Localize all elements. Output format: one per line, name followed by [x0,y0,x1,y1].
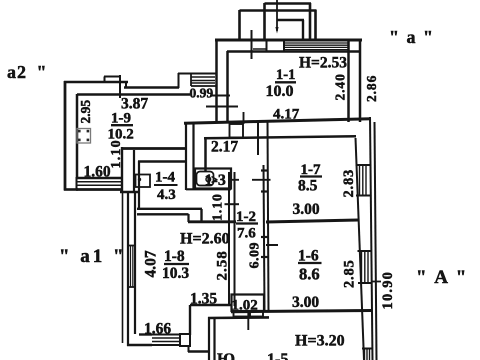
window jamb [283,40,285,52]
room 1-4 bottom wall upper line [137,208,202,210]
wall between 1-9 and porch a1 top [120,191,140,194]
kitchen west wall inner line [213,318,215,360]
porch a1 wall outer thin [122,192,124,343]
wall to kitchen [188,350,210,352]
leader line with arrow [275,0,278,34]
door dot [138,178,141,181]
window jamb [266,40,268,52]
svg-text:4.17: 4.17 [273,107,300,123]
corridor west wall outer [228,172,230,306]
top inner wall [227,50,361,53]
svg-text:1-5: 1-5 [267,351,288,360]
bath tub [195,169,231,189]
svg-text:2.86: 2.86 [364,75,379,102]
tick 3.87 [119,75,121,98]
svg-text:" a1 ": " a1 " [59,246,127,267]
glazing division top [127,245,136,247]
hall 1-8 east lower wall [190,304,231,307]
window 1.66 right block [180,334,190,346]
window 1.60 left jamb [76,177,78,191]
jamb mark [261,169,268,171]
porch a1 glazing [131,245,133,287]
top outer wall [215,39,362,42]
vent shaft edge extension [243,112,245,124]
room 1-4 east wall inner [192,122,194,190]
svg-text:2.85: 2.85 [342,259,358,288]
wall between 1-6 and kitchen [231,311,371,312]
window 1.60 bottom [76,188,122,191]
svg-text:Н=2.60: Н=2.60 [180,231,230,248]
svg-text:Н=2.53: Н=2.53 [299,55,347,72]
hall se corner vertical [189,305,191,335]
svg-text:3.00: 3.00 [293,201,320,218]
svg-text:2.17: 2.17 [211,139,238,156]
step connector right [178,73,180,88]
room 1-4 top wall inner [138,160,186,163]
svg-text:1.10: 1.10 [211,193,226,221]
svg-text:1-1: 1-1 [276,67,295,83]
window 0.99 glazing [191,77,215,83]
tick 10.90 [372,281,381,283]
svg-text:2.95: 2.95 [78,100,93,124]
tick corridor door [225,203,240,205]
right outer wall line 1 [370,117,373,360]
tick on west wall [210,95,230,97]
porch a1 wall line 2 [134,192,136,334]
svg-text:Н=3.20: Н=3.20 [295,333,345,350]
pilaster top line [104,76,121,78]
underline 1-6 [298,262,322,264]
svg-text:" А ": " А " [416,267,468,288]
svg-text:Ю: Ю [217,351,235,360]
pilaster connector [104,77,106,83]
underline 1-7 [300,175,322,177]
sill line [253,48,266,50]
svg-text:1.02: 1.02 [232,298,258,314]
room 1-1 east wall outer [347,39,350,122]
underline 1-4 [154,184,178,186]
room 1-9 top inner wall [77,93,190,96]
svg-text:8.6: 8.6 [299,265,320,284]
room 1-4 bottom wall lower line [137,213,189,215]
svg-text:1-3: 1-3 [205,172,226,189]
svg-text:0.99: 0.99 [190,86,214,101]
balcony inner rectangle [277,20,304,40]
window 0.99 jamb [190,73,192,86]
window 1-1 glazing [284,43,348,50]
porch a1 wall line 1 [127,192,129,346]
door jamb rect left [234,312,249,317]
window 1.60 top [76,177,122,179]
tick on west wall [206,106,238,108]
svg-text:10.0: 10.0 [266,83,294,100]
svg-text:3.00: 3.00 [292,294,319,311]
svg-text:1.66: 1.66 [144,321,171,338]
corridor east wall west line [264,165,265,311]
underline 1-2 [236,222,258,224]
svg-text:2.83: 2.83 [341,169,357,198]
bathroom top inner wall [204,136,356,138]
svg-text:8.5: 8.5 [298,178,318,195]
tick door bath east segment [252,179,271,181]
corridor west wall inner [234,172,236,306]
room 1-4 west wall outer [121,147,123,193]
door 1.02 box [232,295,265,312]
window 2.85 [358,251,373,283]
door jamb rect right [250,312,263,317]
tick 2.17 [257,121,259,155]
corridor east wall east line [268,121,269,312]
jamb mark [261,190,268,192]
window 0.99 top [178,73,216,75]
sanitary block top wall [184,119,371,123]
right outer wall inner line [356,138,365,360]
dimension tick on top wall [251,30,253,59]
vent shaft box [230,124,244,138]
hall south outer wall [127,344,152,346]
bathroom west wall [204,138,207,172]
stove dashed symbol [77,129,91,144]
porch a2 bottom wall [64,188,78,191]
wall 3.87 lower edge [124,86,179,89]
room 1-9 west inner wall [76,94,79,178]
hall south inner wall [139,333,152,335]
svg-text:2.58: 2.58 [215,250,231,280]
tick door 1-6 [266,244,278,246]
room 1-4 east wall outer [185,122,187,190]
step connector left [125,82,127,88]
svg-text:10.3: 10.3 [162,265,189,282]
tick door bath [228,179,239,181]
svg-text:2.40: 2.40 [333,73,348,100]
window bottom right [362,348,373,360]
room 1-1 west wall outer [215,40,218,122]
svg-text:4.07: 4.07 [143,250,160,277]
kitchen west wall [208,317,210,360]
hall top wall east part [188,220,236,223]
balcony outer rectangle [240,10,317,40]
window 2.83 [356,165,372,196]
svg-text:4.3: 4.3 [157,187,176,203]
porch a2 top wall [64,81,128,84]
svg-text:1-4: 1-4 [155,170,175,186]
tick below door [247,311,249,330]
room 1-4 west wall inner [133,150,135,192]
svg-text:a2 ": a2 " [7,62,48,82]
room 1-1 west wall inner [226,51,229,122]
glazing division bottom [127,286,136,288]
room 1-1 east wall inner [359,39,362,122]
window 0.99 bottom [191,85,216,87]
underline 1-8 [164,263,189,265]
underline 1-9 [111,124,133,126]
svg-text:1.10: 1.10 [109,139,124,168]
wc step vertical [200,209,202,222]
jamb mark [261,236,268,238]
svg-text:" a ": " a " [389,27,435,47]
bath bottom wall [186,188,231,190]
balcony middle rectangle [265,3,312,40]
window 1.66 [152,335,180,346]
svg-text:1-8: 1-8 [164,248,185,265]
room 1-4 top wall outer [121,147,186,150]
jamb mark [261,256,268,258]
svg-text:6.09: 6.09 [248,242,263,269]
wall between 1-7 and 1-6 [266,220,358,222]
svg-text:1.60: 1.60 [84,164,111,181]
svg-text:1.35: 1.35 [190,291,217,308]
right outer wall line 2 [375,122,377,360]
room 1-4 inner west line [138,161,140,210]
room 1-4 door niche [136,175,151,188]
underline 1-1 [275,81,296,83]
svg-text:7.6: 7.6 [237,226,256,242]
step vertical west [187,214,189,222]
corner drop vertical [188,346,190,352]
kitchen top wall [208,316,269,319]
window 1.60 glazing [76,182,121,185]
porch a2 left wall [64,81,67,191]
svg-text:10.90: 10.90 [380,271,396,310]
